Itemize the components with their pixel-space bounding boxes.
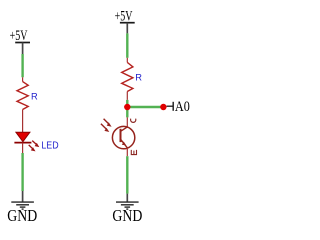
pin label C (collector) (131, 119, 136, 123)
svg-text:A0: A0 (175, 98, 190, 115)
phototransistor Q1 circle (112, 126, 134, 148)
ground symbol bars (right) (116, 202, 139, 209)
wire: +5V to resistor R (right) (126, 33, 128, 57)
resistor R (left) zigzag body (17, 82, 28, 110)
resistor R (left) top pin lead (22, 77, 24, 81)
junction node dot (124, 104, 130, 110)
ground stub (left) (22, 191, 24, 202)
wire: node to A0 pin (127, 106, 163, 108)
wire: emitter to ground (right) (126, 156, 128, 193)
A0 pin lead line (167, 105, 173, 107)
phototransistor collector diagonal (121, 127, 128, 131)
+5V power symbol stub (left) (22, 43, 24, 55)
phototransistor collector pin lead (126, 117, 128, 127)
resistor R (left) bottom pin lead / wire to LED anode (22, 110, 24, 133)
wire: resistor to phototransistor collector node (126, 100, 128, 118)
LED cathode bar (14, 142, 31, 144)
LED light arrow 1 (32, 141, 36, 145)
LED light arrow 2 (29, 145, 33, 149)
svg-text:GND: GND (112, 206, 142, 225)
wire: LED to ground (left) (21, 153, 23, 191)
A0 pin bar (172, 102, 174, 111)
+5V power symbol stub (right) (126, 23, 128, 34)
svg-text:R: R (135, 72, 142, 82)
phototransistor base bar (120, 129, 122, 142)
resistor R (right) top pin lead (126, 58, 128, 63)
svg-text:+5V: +5V (10, 27, 28, 44)
A0 pin end dot (160, 104, 166, 110)
phototransistor light arrow 2 (101, 124, 106, 129)
ground stub (right) (126, 194, 128, 202)
LED triangle (anode) (16, 132, 30, 142)
+5V power symbol bar (left) (15, 42, 30, 44)
phototransistor emitter pin lead (126, 148, 128, 156)
svg-text:R: R (31, 92, 38, 102)
pin label E (emitter) (131, 150, 136, 155)
+5V power symbol bar (right) (120, 22, 135, 24)
wire: +5V to resistor R (left) (21, 54, 23, 77)
svg-text:GND: GND (7, 206, 37, 225)
resistor R (right) bottom pin lead (126, 92, 128, 100)
phototransistor emitter diagonal with arrow (121, 140, 128, 148)
svg-text:LED: LED (41, 140, 58, 151)
LED cathode pin lead (22, 143, 24, 153)
phototransistor light arrow 1 (104, 119, 109, 124)
resistor R (right) zigzag body (122, 62, 133, 91)
ground symbol bars (left) (11, 202, 34, 209)
